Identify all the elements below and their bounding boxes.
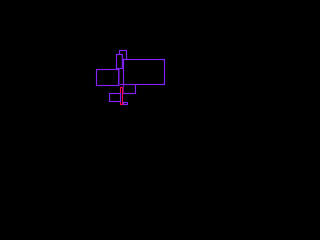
highlighted net N1 (red rectangle loop) (121, 88, 123, 105)
component U3 (left box) (97, 70, 119, 86)
component U4 (large right box) (124, 60, 165, 85)
component U7 (bottom tiny box) (124, 103, 128, 105)
component U5 left edge upper part (122, 85, 124, 88)
component U5 bottom edge (123, 93, 136, 95)
component U6 (bottom left box, drawn over net N1) (110, 94, 121, 102)
component U3 right edge (118, 70, 120, 85)
component U5 left edge lower part (dim) (122, 87, 124, 93)
component U5 right edge (135, 85, 137, 95)
wire (horizontal stub left of U4 bottom edge) (120, 84, 124, 86)
component U2 (tall narrow box over U1) (117, 55, 123, 69)
component U1 (top small box) (120, 51, 127, 60)
